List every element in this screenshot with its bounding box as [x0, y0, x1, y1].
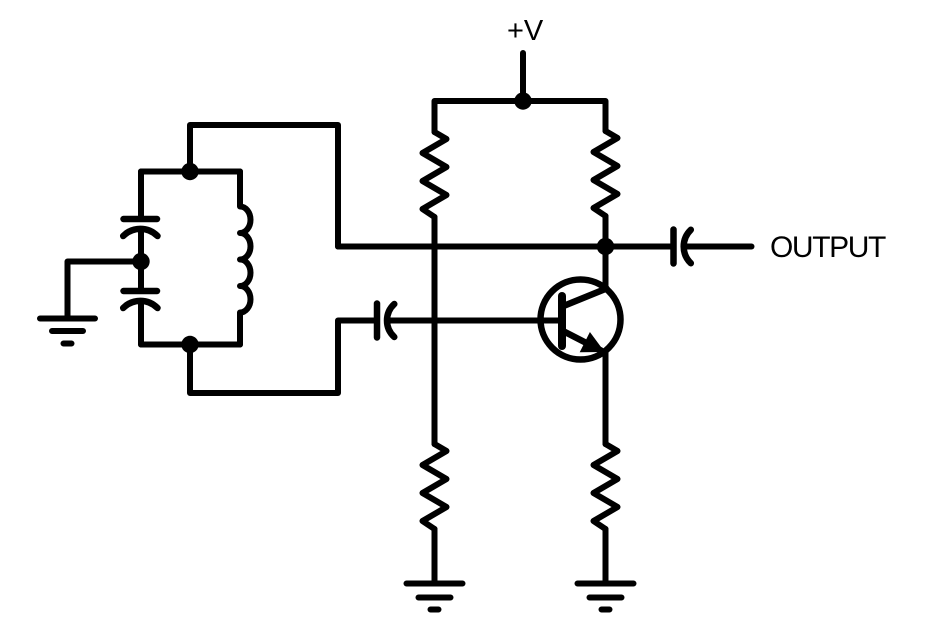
- wire left bias column: [432, 217, 438, 444]
- capacitor C4 flat plate: [670, 230, 677, 264]
- capacitor C4 curved plate: [684, 230, 691, 263]
- ground bottom-center: [407, 584, 463, 610]
- wire tank top link: [190, 125, 338, 247]
- capacitor C2 curved plate: [123, 301, 157, 308]
- wire R3 to ground: [432, 529, 438, 584]
- inductor L1: [240, 172, 251, 345]
- wire output lead: [687, 244, 752, 250]
- node supply junction: [514, 92, 531, 109]
- capacitor C2 flat plate: [124, 288, 158, 295]
- ground left: [40, 319, 95, 344]
- wire C2 bottom lead: [138, 301, 144, 345]
- node tank top: [181, 163, 198, 180]
- transistor Q1 collector stroke: [564, 289, 607, 307]
- svg-text:+V: +V: [507, 15, 544, 47]
- wire C2 top lead: [138, 262, 144, 292]
- wire base lead: [390, 318, 562, 324]
- wire R4 to ground: [603, 529, 609, 584]
- wire emitter lead: [603, 351, 609, 444]
- node center tap: [132, 253, 149, 270]
- wire center tap to ground: [68, 262, 142, 319]
- capacitor C1 flat plate: [124, 216, 158, 223]
- transistor Q1 base bar: [558, 296, 566, 346]
- transistor Q1 emitter arrow: [580, 332, 605, 352]
- ground bottom-right: [578, 584, 634, 610]
- wire C1 to center tap: [138, 229, 144, 262]
- capacitor C3 curved plate: [387, 304, 394, 337]
- node output junction: [597, 238, 614, 255]
- wire tank bottom rail: [141, 342, 240, 348]
- transistor Q1 circle: [541, 280, 621, 360]
- resistor R3: [423, 444, 447, 529]
- capacitor C3 flat plate: [374, 304, 381, 338]
- wire supply rail with legs: [435, 101, 606, 132]
- wire +V lead: [520, 53, 526, 101]
- wire tank top rail: [141, 169, 240, 175]
- wire output line: [338, 244, 671, 250]
- wire tank bottom link: [190, 321, 374, 394]
- wire C1 top lead: [138, 172, 144, 220]
- node tank bottom: [181, 336, 198, 353]
- resistor R1: [423, 132, 447, 217]
- transistor Q1 emitter stroke: [564, 332, 601, 351]
- wire R2 to output node: [603, 216, 609, 247]
- resistor R2: [594, 131, 618, 216]
- capacitor C1 curved plate: [123, 229, 157, 236]
- wire collector lead: [603, 247, 609, 289]
- resistor R4: [594, 444, 618, 529]
- svg-text:OUTPUT: OUTPUT: [770, 231, 886, 264]
